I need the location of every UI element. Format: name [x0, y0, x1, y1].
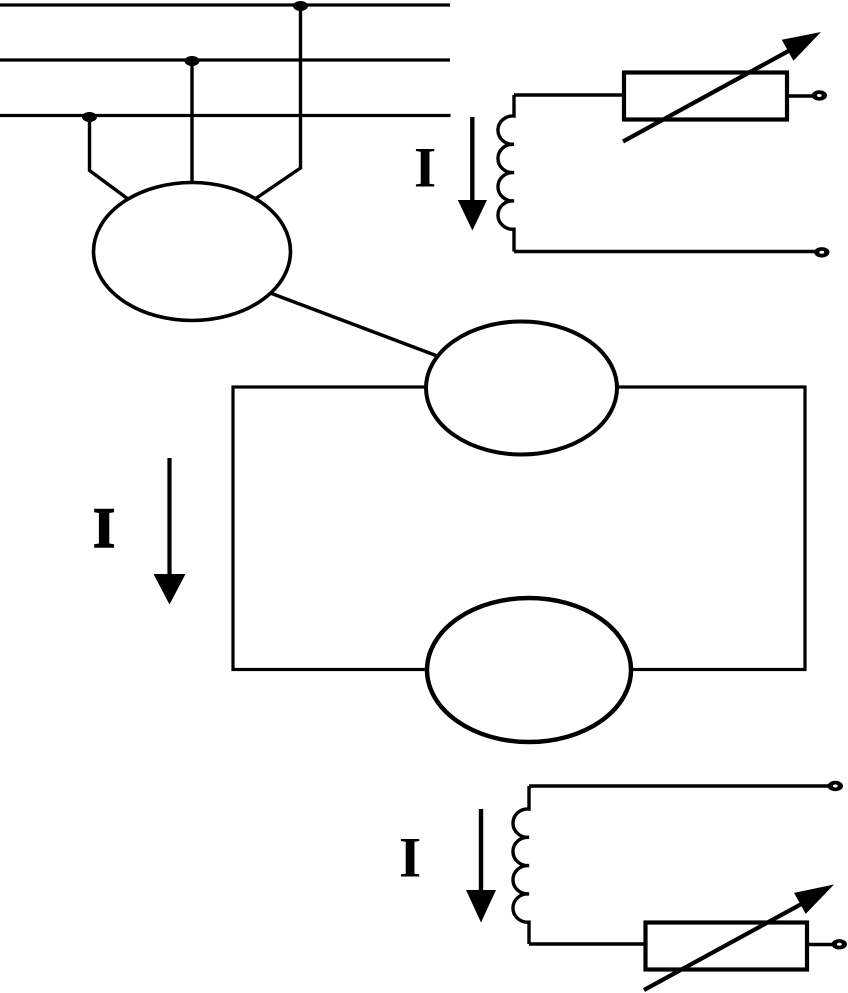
wire coil bottom to rheostat [529, 942, 648, 945]
inductor field winding (top) [498, 95, 514, 252]
wire coil bottom to terminal [514, 250, 815, 253]
current arrow (field, bottom) [466, 809, 496, 923]
terminal (top right) [812, 90, 827, 100]
wire from L3 to motor M [90, 116, 129, 199]
wire rheostat to right terminal [787, 94, 813, 97]
wire coil top to terminal [529, 784, 829, 788]
motor M (3-phase machine) [94, 183, 291, 321]
terminal (bottom right) [832, 939, 847, 949]
motor under test [427, 598, 631, 742]
wire coil top to rheostat [514, 93, 626, 96]
svg-text:I: I [93, 497, 115, 560]
wire bus line L3 [0, 114, 451, 117]
junction dot on L1 [293, 1, 308, 11]
wire shaft link from motor M to generator G [265, 291, 440, 357]
rheostat R1 arrow [623, 32, 821, 142]
junction dot on L3 [82, 112, 97, 122]
svg-text:I: I [399, 827, 421, 890]
svg-text:I: I [414, 137, 436, 200]
current arrow (armature) [154, 458, 186, 605]
rheostat R2 body [646, 923, 808, 970]
wire from L1 to motor M [255, 5, 301, 199]
wire bus line L2 [0, 58, 450, 61]
junction dot on L2 [185, 56, 200, 66]
terminal (bottom of top-right circuit) [814, 247, 829, 257]
rheostat R1 body [624, 73, 787, 120]
terminal (top of bottom circuit) [828, 781, 843, 791]
generator G [426, 322, 617, 455]
current arrow (field, top) [458, 117, 487, 231]
wire bus line L1 [0, 3, 450, 6]
wire from L2 to motor M [190, 60, 193, 188]
inductor field winding (bottom) [513, 786, 529, 944]
wire loop rectangle of armature circuit [233, 387, 805, 670]
wire rheostat to right terminal [807, 943, 834, 946]
rheostat R2 arrow [644, 885, 834, 991]
